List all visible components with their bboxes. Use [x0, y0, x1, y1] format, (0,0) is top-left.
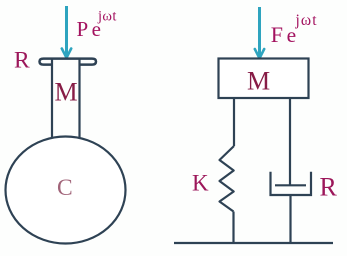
column M (mass tube) — [52, 60, 80, 140]
flange R — [40, 59, 97, 65]
svg-text:M: M — [55, 78, 78, 107]
label P e^jwt — [77, 9, 117, 42]
wire spring to ground — [232, 212, 234, 244]
force arrow F — [255, 7, 264, 58]
sphere C — [6, 137, 126, 244]
svg-text:jωt: jωt — [295, 12, 318, 29]
label F e^jwt — [271, 12, 318, 47]
wire left leg — [233, 98, 235, 146]
svg-text:C: C — [57, 175, 73, 201]
spring K — [220, 146, 235, 212]
force arrow P — [62, 6, 71, 58]
svg-text:P: P — [77, 17, 89, 41]
damper R (dashpot) — [271, 172, 312, 195]
wire damper to ground — [289, 195, 291, 243]
svg-text:F: F — [271, 22, 283, 47]
svg-text:K: K — [192, 170, 209, 195]
svg-text:jωt: jωt — [97, 9, 117, 25]
svg-text:R: R — [320, 172, 338, 201]
svg-text:M: M — [247, 67, 270, 96]
ground — [174, 242, 333, 244]
mass block M — [219, 59, 309, 99]
wire right leg — [289, 98, 291, 186]
svg-text:R: R — [14, 48, 30, 74]
